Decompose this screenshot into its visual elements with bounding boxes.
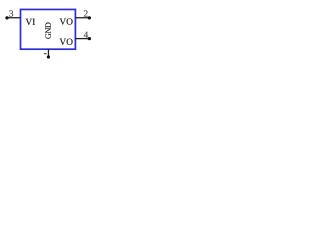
- pin name GND (rotated 90 CCW): [45, 23, 51, 39]
- pin number 3: [9, 10, 13, 16]
- wire pin 2 stub (VO output, top right): [75, 17, 89, 19]
- pin name VO (pin 4): [60, 39, 73, 45]
- regulator body U1 (blue box): [21, 9, 76, 49]
- node dot pin 2: [88, 16, 91, 19]
- node dot pin 1: [47, 55, 50, 58]
- wire pin 1 stub (GND, bottom): [47, 49, 49, 57]
- node dot pin 3: [5, 16, 8, 19]
- node dot pin 4: [88, 37, 91, 40]
- wire pin 4 stub (VO output, lower right): [75, 38, 89, 40]
- pin number 1 (rotated, appears as dash): [44, 53, 47, 54]
- pin number 4: [84, 32, 88, 38]
- pin name VI: [26, 19, 35, 25]
- wire pin 3 stub (VI input, left): [7, 17, 21, 19]
- pin name VO (pin 2): [60, 18, 73, 24]
- voltage regulator IC schematic symbol: [0, 0, 100, 71]
- pin number 2: [84, 10, 88, 16]
